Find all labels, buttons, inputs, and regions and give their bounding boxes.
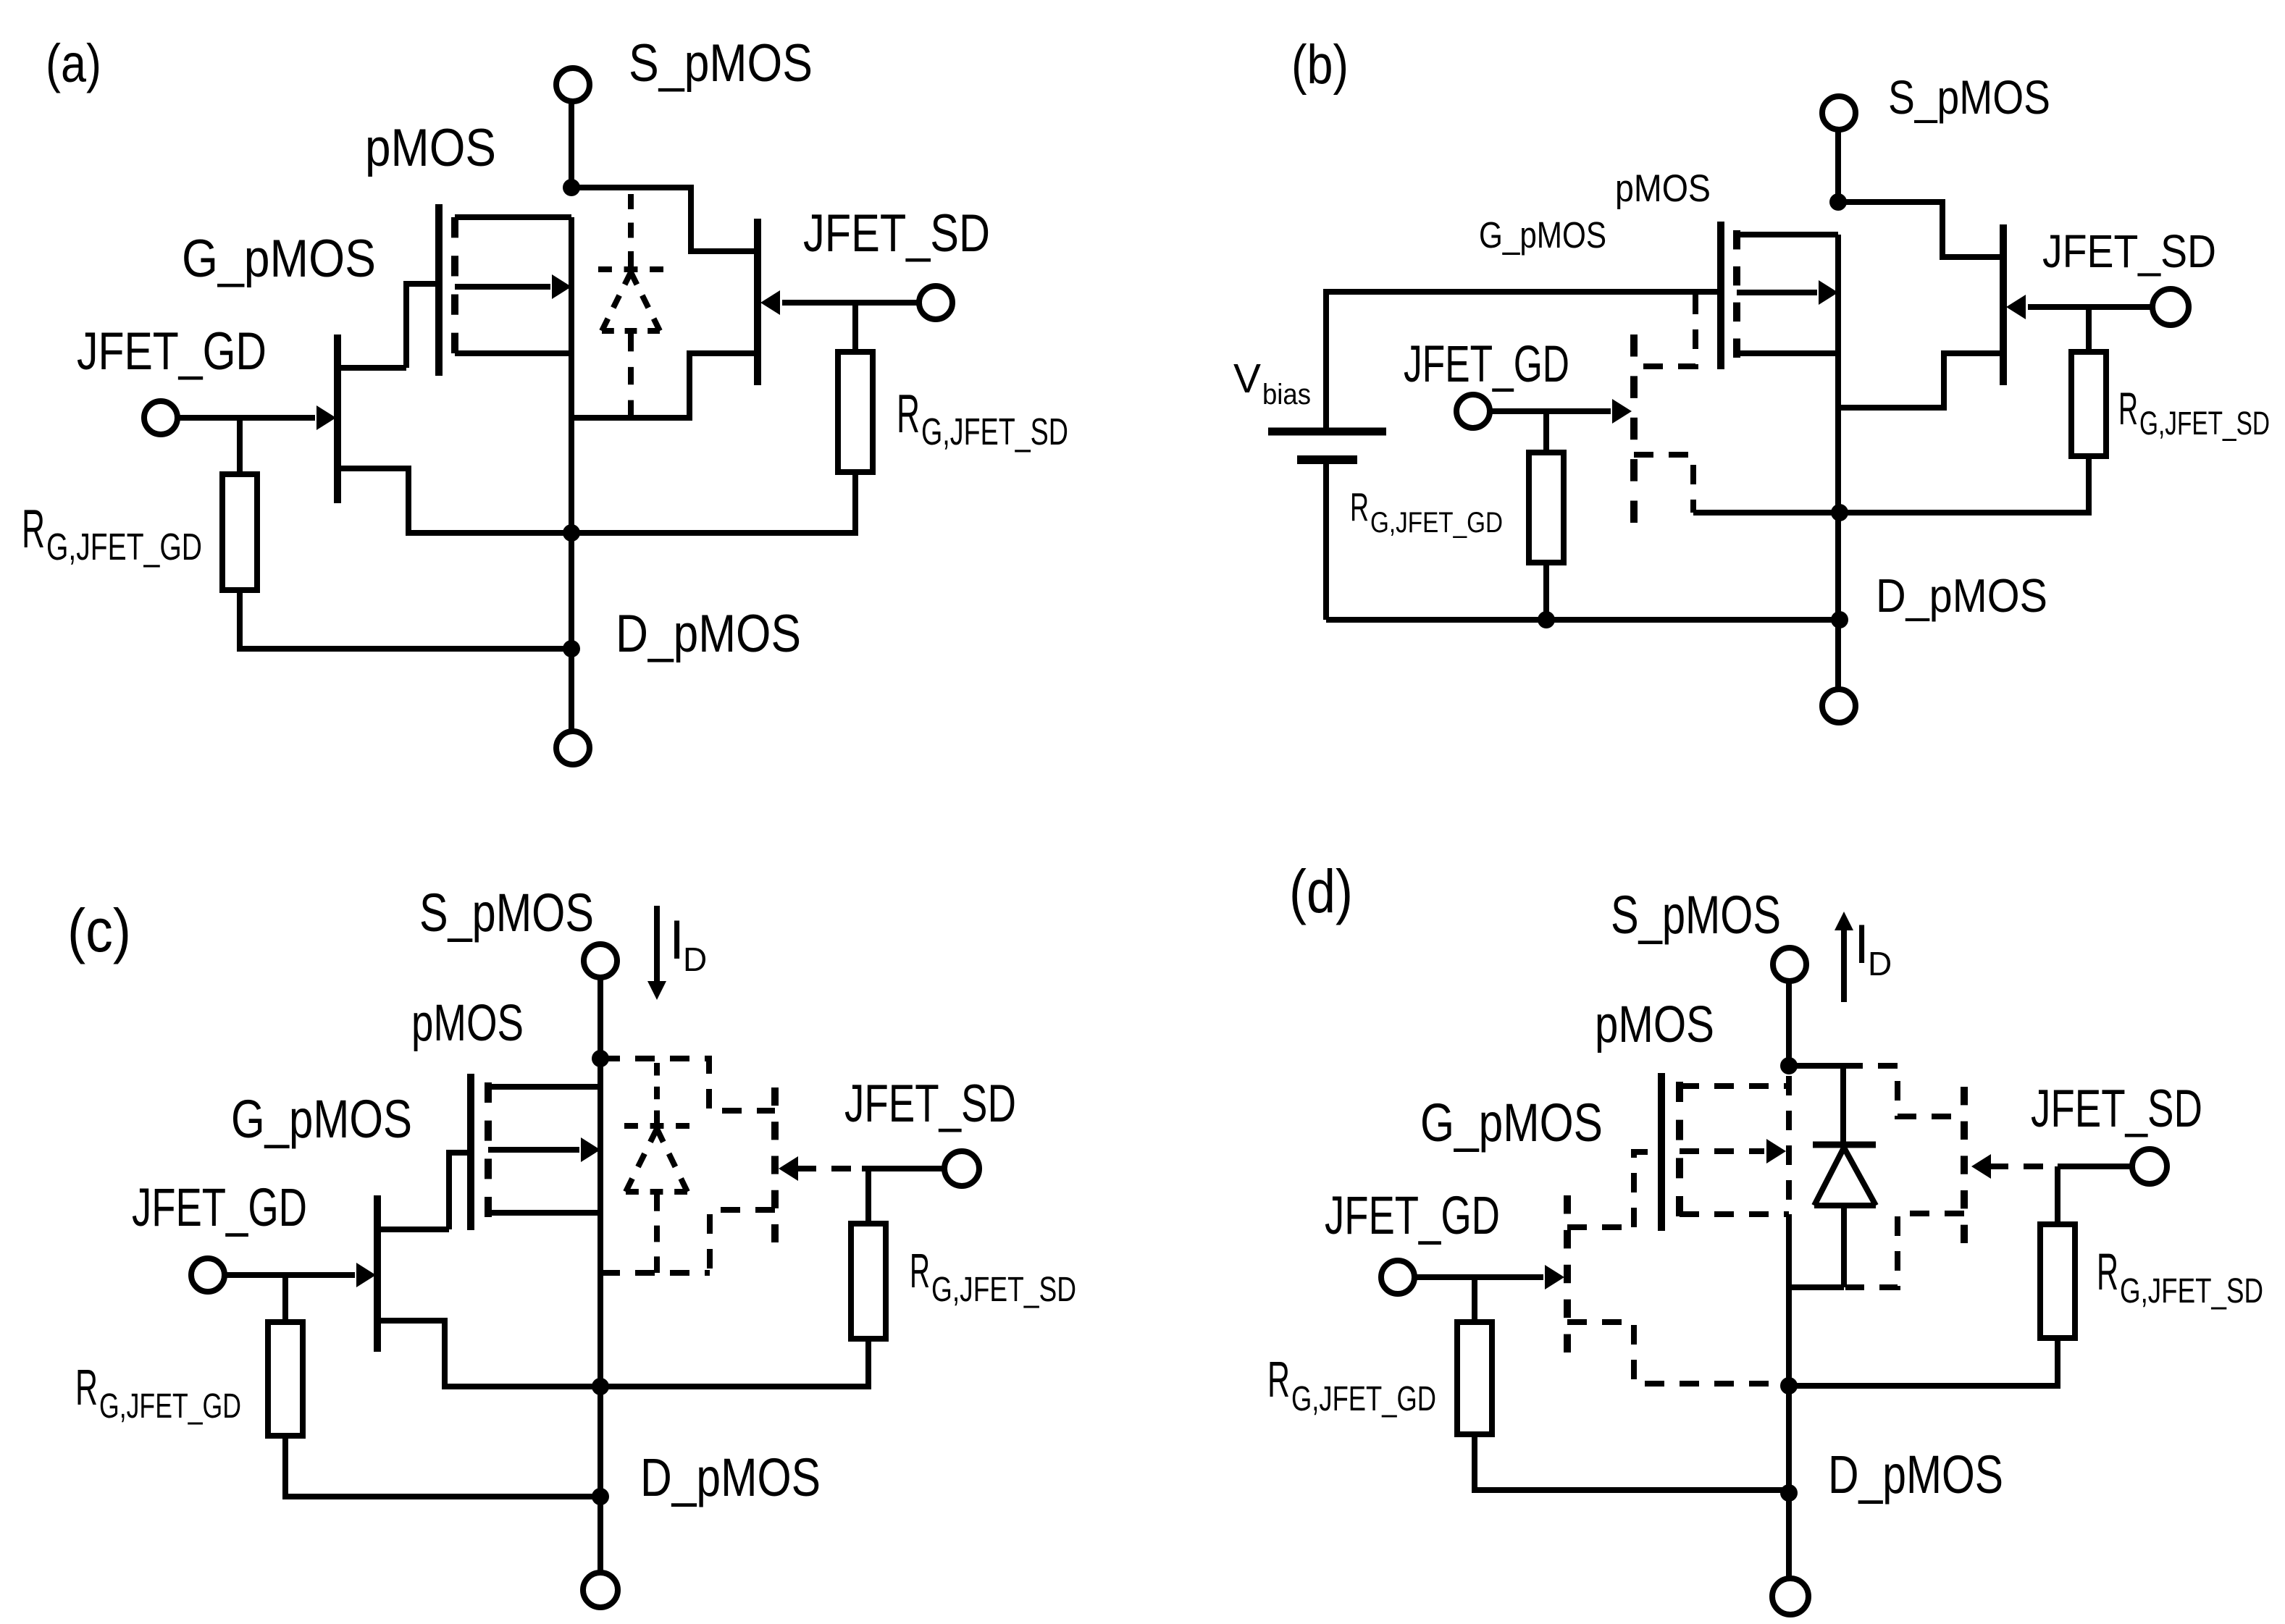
resistor R_G,JFET_GD (b) [1529,453,1564,563]
wire JFET_GD gate (a) [177,415,315,421]
terminal JFET_GD (c) [191,1258,225,1292]
svg-text:R: R [22,498,45,559]
wire JFET_GD gate (b) [1490,408,1611,414]
svg-text:JFET_GD: JFET_GD [1325,1185,1500,1245]
JFET_SD source stub (b) [1838,353,2003,408]
wire JFET_GD gate (c) [225,1272,355,1278]
pMOS bulk arrow stub (b) [1737,290,1817,295]
pMOS gate bar (d) [1658,1073,1665,1231]
svg-text:I: I [1854,914,1869,975]
wire to R_G,JFET_SD (c) [865,1169,871,1224]
svg-text:JFET_SD: JFET_SD [2031,1080,2202,1138]
dashed wire JFET_GD drain to pMOS gate (d) [1634,1152,1661,1227]
resistor R_G,JFET_SD (c) [851,1224,886,1339]
node pMOS drain junction (c) [592,1378,609,1395]
body diode dashed (c) [654,1063,660,1123]
svg-text:JFET_GD: JFET_GD [132,1177,307,1237]
JFET_GD source dashed link (b) [1634,455,1693,513]
JFET_SD drain stub (a) [691,248,758,254]
JFET_GD channel bar (c) [374,1195,381,1352]
dashed wire to JFET_SD drain (d) [1843,1066,1964,1116]
wire JFET_GD source to node (b) [1693,510,1840,516]
pMOS bulk arrowhead (d) [1766,1139,1786,1164]
resistor R_G,JFET_SD (a) [838,352,873,472]
pMOS drain stub (a) [455,350,571,356]
svg-text:R: R [75,1359,98,1415]
wire to R_G,JFET_GD (d) [1472,1277,1477,1322]
svg-text:R: R [910,1244,930,1298]
pMOS channel (c) [485,1082,492,1217]
terminal S_pMOS (a) [556,68,590,101]
svg-text:pMOS: pMOS [1615,167,1711,210]
JFET_GD drain stub dashed (d) [1567,1224,1634,1230]
svg-text:(a): (a) [46,33,101,93]
JFET_GD drain stub (a) [337,365,406,371]
JFET_SD channel bar (b) [2000,224,2007,385]
svg-text:D_pMOS: D_pMOS [1876,569,2047,622]
svg-text:G_pMOS: G_pMOS [231,1089,412,1149]
JFET_SD gate arrowhead (d) [1971,1154,1991,1179]
svg-text:G,JFET_SD: G,JFET_SD [2139,405,2270,442]
wire R_G,JFET_SD to drain line (d) [1789,1338,2058,1386]
JFET_SD gate arrowhead (a) [760,290,780,315]
terminal S_pMOS (d) [1773,948,1806,981]
pMOS bulk arrowhead (a) [552,274,571,299]
wire V_bias to rail (b) [1323,464,1329,620]
wire JFET_SD gate (a) [782,300,919,306]
JFET_SD source stub (a) [571,353,758,418]
pMOS channel (a) [451,217,458,353]
terminal JFET_SD (d) [2132,1149,2167,1184]
wire S_pMOS to node (b) [1835,130,1841,202]
node S (d) [1780,1057,1798,1074]
wire JFET_SD gate dashed (c) [797,1166,862,1171]
svg-text:(c): (c) [67,896,131,964]
dashed wire S node to JFET_SD drain (c) [600,1059,775,1111]
terminal JFET_SD (c) [944,1151,979,1186]
node D_pMOS (a) [563,640,580,657]
pMOS source stub (c) [488,1084,600,1090]
terminal D_pMOS (a) [556,731,590,765]
JFET_GD channel bar (a) [334,335,341,503]
JFET_SD channel bar (d) [1961,1087,1968,1243]
pMOS gate bar (b) [1717,222,1724,369]
terminal D_pMOS (d) [1772,1578,1808,1615]
svg-text:(d): (d) [1289,857,1353,925]
node rail R junction (b) [1538,611,1555,628]
wire to R_G,JFET_GD (b) [1543,411,1549,453]
pMOS source stub (b) [1737,232,1838,237]
svg-text:V: V [1233,355,1261,402]
svg-text:S_pMOS: S_pMOS [419,883,594,943]
svg-text:S_pMOS: S_pMOS [1611,885,1781,945]
svg-text:I: I [669,909,684,971]
wire JFET_SD gate (b) [2028,304,2152,310]
node S (a) [563,179,580,196]
svg-text:JFET_SD: JFET_SD [803,204,990,263]
svg-text:D_pMOS: D_pMOS [1828,1444,2003,1505]
node D_pMOS (b) [1831,611,1848,628]
svg-text:JFET_GD: JFET_GD [77,322,267,381]
svg-text:R: R [1267,1351,1290,1408]
pMOS bulk arrow stub (c) [488,1147,579,1153]
terminal JFET_GD (b) [1456,395,1490,428]
terminal JFET_GD (a) [144,401,177,434]
JFET_GD source stub dashed (d) [1567,1322,1789,1384]
JFET_GD drain stub (c) [377,1227,449,1232]
JFET_GD gate arrowhead (c) [356,1263,376,1287]
pMOS channel (b) [1733,230,1740,358]
svg-text:(b): (b) [1291,34,1349,96]
wire pMOS drain vertical (a) [569,217,574,731]
pMOS drain stub (c) [488,1210,600,1216]
wire R_G,JFET_GD to D node (a) [240,590,571,649]
node pMOS drain junction (b) [1831,504,1848,521]
wire JFET_GD drain to pMOS gate (c) [449,1153,471,1229]
JFET_SD source stub dashed (c) [710,1210,775,1273]
svg-text:G,JFET_GD: G,JFET_GD [1370,507,1503,539]
wire JFET_SD gate solid (c) [862,1166,944,1171]
svg-text:D: D [1868,945,1892,983]
wire pMOS drain vertical (c) [598,1059,603,1573]
wire R_G,JFET_SD to drain node (b) [1840,456,2089,513]
svg-text:pMOS: pMOS [411,995,524,1052]
svg-text:pMOS: pMOS [1595,996,1714,1053]
svg-text:G,JFET_SD: G,JFET_SD [931,1271,1076,1309]
JFET_GD source stub (a) [337,468,571,533]
body diode solid (d) [1840,1066,1846,1142]
svg-text:G_pMOS: G_pMOS [1420,1093,1603,1153]
terminal S_pMOS (b) [1822,96,1856,130]
svg-text:JFET_GD: JFET_GD [1404,336,1569,393]
JFET_SD source stub dashed (d) [1845,1213,1964,1287]
pMOS source stub dashed (d) [1680,1083,1789,1089]
JFET_SD gate arrowhead (b) [2006,295,2026,319]
JFET_SD channel bar (c) [771,1087,779,1242]
wire R_G,JFET_SD to drain line (c) [600,1339,868,1387]
resistor R_G,JFET_GD (a) [222,474,257,590]
pMOS channel (d) [1676,1082,1683,1216]
pMOS bulk arrow stub (a) [455,284,550,290]
node S (b) [1829,193,1847,211]
svg-text:JFET_SD: JFET_SD [2042,225,2216,277]
JFET_GD channel bar (b) [1630,335,1638,523]
wire R_G,JFET_SD to drain line (a) [571,472,855,533]
wire S_pMOS to node (c) [598,977,603,1059]
JFET_GD drain dashed link (b) [1634,295,1695,366]
current arrow I_D (d) [1841,930,1847,1002]
svg-text:G,JFET_SD: G,JFET_SD [2120,1272,2263,1310]
svg-text:pMOS: pMOS [365,119,496,177]
resistor R_G,JFET_SD (d) [2040,1224,2075,1338]
battery V_bias plate- (b) [1297,455,1357,464]
terminal D_pMOS (c) [583,1573,618,1607]
pMOS drain stub dashed (d) [1680,1211,1789,1217]
wire R_G,JFET_GD to D node (c) [285,1436,600,1497]
node pMOS drain junction (a) [563,524,580,542]
JFET_GD gate arrowhead (b) [1612,399,1632,424]
wire JFET_SD gate dashed (d) [1989,1164,2058,1169]
JFET_GD gate arrowhead (d) [1545,1265,1564,1289]
resistor R_G,JFET_GD (c) [268,1322,303,1436]
terminal JFET_SD (b) [2152,289,2189,325]
node S (c) [592,1050,609,1067]
terminal JFET_GD (d) [1381,1261,1414,1294]
wire to R_G,JFET_GD (a) [237,418,243,474]
pMOS gate bar (c) [467,1074,474,1230]
svg-text:G_pMOS: G_pMOS [1479,214,1606,256]
svg-text:G,JFET_GD: G,JFET_GD [99,1387,241,1426]
svg-text:JFET_SD: JFET_SD [844,1074,1016,1133]
wire G_pMOS to V_bias (b) [1326,292,1721,428]
svg-text:G,JFET_GD: G,JFET_GD [1291,1380,1436,1418]
battery V_bias plate+ (b) [1268,428,1386,436]
resistor R_G,JFET_GD (d) [1457,1322,1492,1434]
wire to R_G,JFET_SD (d) [2055,1166,2060,1224]
wire S_pMOS to node (d) [1786,981,1792,1066]
pMOS gate bar (a) [435,204,443,376]
svg-text:R: R [2097,1244,2118,1301]
svg-text:R: R [897,383,920,444]
JFET_GD source stub (c) [377,1321,600,1387]
JFET_SD gate arrowhead (c) [779,1156,798,1181]
JFET_SD channel bar (a) [754,219,761,385]
wire pMOS drain vertical (d) [1786,1214,1792,1578]
svg-text:D_pMOS: D_pMOS [616,605,801,663]
wire to R_G,JFET_SD (a) [852,303,858,352]
svg-text:S_pMOS: S_pMOS [629,34,813,93]
svg-text:R: R [1350,484,1369,529]
svg-text:S_pMOS: S_pMOS [1888,70,2050,124]
svg-text:bias: bias [1262,379,1311,411]
terminal D_pMOS (b) [1822,689,1856,723]
wire R_G,JFET_GD to D node (d) [1475,1434,1789,1490]
wire S node to JFET_SD drain (b) [1838,202,2003,257]
wire pMOS drain vertical (b) [1835,235,1841,691]
wire S node to JFET_SD drain (a) [571,188,758,251]
wire S_pMOS to node (a) [569,102,574,188]
wire to R_G,JFET_SD (b) [2086,307,2092,352]
JFET_SD drain stub (b) [1942,254,2003,260]
terminal JFET_SD (a) [919,286,952,319]
resistor R_G,JFET_SD (b) [2071,352,2106,456]
current arrow I_D (c) [654,906,660,982]
svg-text:G_pMOS: G_pMOS [182,230,376,288]
svg-text:G,JFET_SD: G,JFET_SD [921,411,1068,453]
wire S node to diode (d) [1789,1063,1843,1069]
JFET_GD channel bar (d) [1564,1195,1571,1352]
svg-text:R: R [2118,384,2138,434]
wire JFET_GD drain to pMOS gate (a) [406,284,439,368]
dashed source return line (c) [600,1270,710,1276]
svg-text:D_pMOS: D_pMOS [640,1447,821,1507]
pMOS bulk arrowhead (c) [581,1137,600,1162]
terminal S_pMOS (c) [584,944,617,977]
body diode (a) [628,194,634,266]
JFET_GD gate arrowhead (a) [316,405,336,430]
wire JFET_GD gate (d) [1414,1274,1543,1280]
node D_pMOS (d) [1780,1484,1798,1502]
wire R_G,JFET_GD to rail (b) [1543,563,1549,620]
wire JFET_SD gate solid (d) [2058,1164,2132,1169]
node D_pMOS (c) [592,1488,609,1505]
pMOS bracket dashed vertical (d) [1786,1076,1792,1214]
pMOS source stub (a) [455,214,571,220]
wire to R_G,JFET_GD (c) [282,1275,288,1322]
svg-text:G,JFET_GD: G,JFET_GD [46,526,202,568]
node pMOS drain junction (d) [1780,1377,1798,1394]
svg-text:D: D [683,941,707,978]
pMOS bulk arrowhead (b) [1819,280,1838,305]
wire bottom rail (b) [1326,617,1840,623]
pMOS drain stub (b) [1737,350,1838,356]
pMOS bulk arrow stub dashed (d) [1680,1148,1764,1154]
